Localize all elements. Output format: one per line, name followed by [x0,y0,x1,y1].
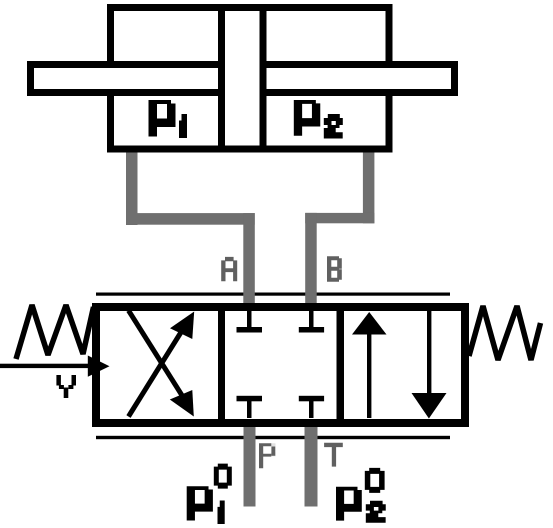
spring left [16,305,94,359]
right position: upward flow arrow [352,312,387,418]
node A label [221,257,237,281]
spring right [469,306,541,360]
label P2 (right chamber) [294,100,343,139]
piston rod (double rod, through both ends) [31,65,455,93]
wire: gray pipe from valve port T downward [305,420,318,507]
node B label [327,256,342,282]
wire: gray pipe right horizontal run [305,213,374,223]
wire: gray pipe drop to valve port A [243,213,255,313]
thin parallel line above valve (proportional marking) [96,293,450,296]
center position: blocked port A (T symbol) [237,311,263,333]
wire: gray pipe from valve port P downward [244,420,256,507]
center position: blocked port B (T symbol) [299,311,324,333]
wire: gray pipe drop to valve port B [305,213,317,313]
label Y [56,375,76,398]
center position: blocked port T (T symbol) [299,396,324,418]
port P label (gray, highlighted) [259,443,276,468]
left position: crossed flow arrows [129,311,195,417]
pilot signal line Y [0,364,93,368]
wire: gray pipe cylinder left port vertical [126,148,138,225]
wire: gray pipe cylinder right port vertical [363,148,375,223]
label P1 (left chamber) [149,100,188,138]
thin parallel line below valve (proportional marking) [96,436,450,439]
wire: gray pipe left horizontal run [126,213,255,225]
valve body (4/3 directional valve) [96,307,465,423]
pilot arrowhead into valve [88,356,110,377]
valve position divider right [337,303,345,427]
label P2^0 (supply pressure right) [336,468,386,523]
port T label (gray) [324,443,343,467]
center position: blocked port P (T symbol) [237,396,263,418]
label P1^0 (supply pressure left) [187,464,232,524]
piston [222,8,264,150]
cylinder barrel [111,8,390,150]
right position: downward flow arrow [412,311,447,419]
valve position divider left [218,303,225,427]
